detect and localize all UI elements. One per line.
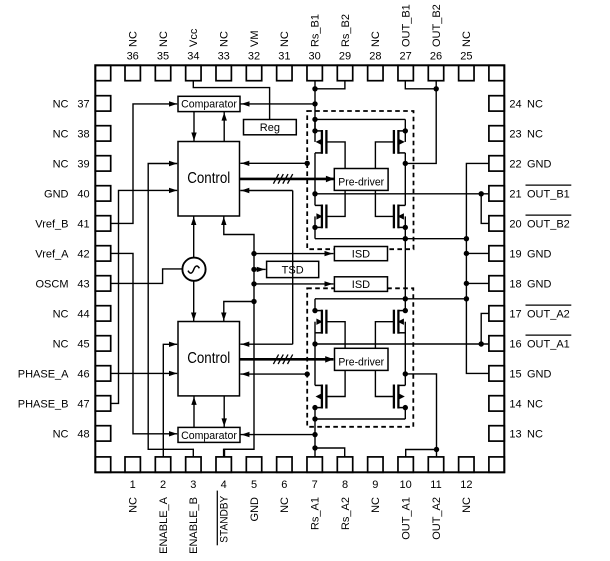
svg-text:28: 28 xyxy=(369,51,381,63)
svg-text:Pre-driver: Pre-driver xyxy=(338,176,384,188)
svg-text:8: 8 xyxy=(342,479,348,491)
svg-text:1: 1 xyxy=(130,479,136,491)
svg-text:NC: NC xyxy=(527,98,543,110)
svg-text:VM: VM xyxy=(249,31,261,48)
svg-text:NC: NC xyxy=(279,497,291,513)
svg-text:45: 45 xyxy=(77,338,89,350)
svg-text:Rs_B1: Rs_B1 xyxy=(309,14,321,47)
svg-text:14: 14 xyxy=(509,398,521,410)
svg-text:Rs_A1: Rs_A1 xyxy=(309,497,321,530)
svg-text:OUT_A1: OUT_A1 xyxy=(400,497,412,540)
svg-text:31: 31 xyxy=(278,51,290,63)
svg-text:39: 39 xyxy=(77,158,89,170)
svg-text:GND: GND xyxy=(527,248,552,260)
svg-text:22: 22 xyxy=(509,158,521,170)
svg-text:NC: NC xyxy=(53,158,69,170)
svg-text:Reg: Reg xyxy=(260,122,280,134)
svg-text:GND: GND xyxy=(527,368,552,380)
svg-text:PHASE_A: PHASE_A xyxy=(18,368,69,380)
svg-text:NC: NC xyxy=(53,308,69,320)
svg-text:NC: NC xyxy=(53,338,69,350)
svg-text:24: 24 xyxy=(509,98,521,110)
svg-text:NC: NC xyxy=(53,128,69,140)
svg-text:ISD: ISD xyxy=(352,249,370,261)
svg-text:NC: NC xyxy=(279,31,291,47)
svg-text:OUT_A1: OUT_A1 xyxy=(527,338,570,350)
svg-text:GND: GND xyxy=(44,188,69,200)
svg-text:11: 11 xyxy=(430,479,441,491)
svg-text:GND: GND xyxy=(527,278,552,290)
svg-text:NC: NC xyxy=(461,497,473,513)
svg-text:36: 36 xyxy=(127,51,139,63)
svg-text:18: 18 xyxy=(509,278,521,290)
svg-text:Control: Control xyxy=(187,350,230,367)
svg-text:ENABLE_B: ENABLE_B xyxy=(188,497,200,554)
svg-text:OUT_A2: OUT_A2 xyxy=(527,308,570,320)
svg-text:19: 19 xyxy=(509,248,521,260)
svg-text:NC: NC xyxy=(527,398,543,410)
svg-text:Comparator: Comparator xyxy=(181,99,237,111)
svg-text:Vcc: Vcc xyxy=(188,28,200,47)
svg-text:44: 44 xyxy=(77,308,89,320)
svg-text:20: 20 xyxy=(509,218,521,230)
svg-text:NC: NC xyxy=(218,31,230,47)
svg-text:OUT_A2: OUT_A2 xyxy=(431,497,443,540)
svg-text:ISD: ISD xyxy=(352,279,370,291)
svg-text:4: 4 xyxy=(221,479,227,491)
svg-text:23: 23 xyxy=(509,128,521,140)
svg-text:NC: NC xyxy=(53,428,69,440)
svg-text:OUT_B1: OUT_B1 xyxy=(400,4,412,47)
svg-text:NC: NC xyxy=(527,128,543,140)
svg-text:26: 26 xyxy=(430,51,442,63)
svg-text:29: 29 xyxy=(339,51,351,63)
svg-text:NC: NC xyxy=(53,98,69,110)
svg-text:ENABLE_A: ENABLE_A xyxy=(158,496,170,554)
svg-text:42: 42 xyxy=(77,248,89,260)
svg-text:40: 40 xyxy=(77,188,89,200)
svg-text:21: 21 xyxy=(509,188,521,200)
svg-text:12: 12 xyxy=(460,479,472,491)
svg-text:33: 33 xyxy=(218,51,230,63)
svg-text:NC: NC xyxy=(370,497,382,513)
svg-text:10: 10 xyxy=(400,479,412,491)
svg-text:OUT_B2: OUT_B2 xyxy=(527,218,570,230)
svg-text:NC: NC xyxy=(527,428,543,440)
svg-text:37: 37 xyxy=(77,98,89,110)
svg-text:Comparator: Comparator xyxy=(181,430,237,442)
svg-text:32: 32 xyxy=(248,51,260,63)
svg-text:6: 6 xyxy=(281,479,287,491)
svg-text:OUT_B1: OUT_B1 xyxy=(527,188,570,200)
svg-text:15: 15 xyxy=(509,368,521,380)
svg-text:9: 9 xyxy=(372,479,378,491)
svg-text:48: 48 xyxy=(77,428,89,440)
svg-text:35: 35 xyxy=(157,51,169,63)
svg-text:46: 46 xyxy=(77,368,89,380)
svg-text:Rs_A2: Rs_A2 xyxy=(340,497,352,530)
svg-text:17: 17 xyxy=(509,308,521,320)
svg-text:GND: GND xyxy=(527,158,552,170)
svg-text:Rs_B2: Rs_B2 xyxy=(340,14,352,47)
svg-text:16: 16 xyxy=(509,338,521,350)
svg-text:NC: NC xyxy=(370,31,382,47)
svg-text:NC: NC xyxy=(128,31,140,47)
svg-text:5: 5 xyxy=(251,479,257,491)
svg-text:NC: NC xyxy=(128,497,140,513)
svg-text:Pre-driver: Pre-driver xyxy=(338,357,384,369)
svg-text:STANDBY: STANDBY xyxy=(218,495,230,543)
svg-text:13: 13 xyxy=(509,428,521,440)
svg-text:43: 43 xyxy=(77,278,89,290)
svg-text:OUT_B2: OUT_B2 xyxy=(431,4,443,47)
svg-text:27: 27 xyxy=(400,51,412,63)
svg-text:34: 34 xyxy=(187,51,199,63)
svg-text:GND: GND xyxy=(249,497,261,522)
svg-text:7: 7 xyxy=(312,479,318,491)
svg-text:OSCM: OSCM xyxy=(36,278,69,290)
svg-text:NC: NC xyxy=(461,31,473,47)
svg-text:38: 38 xyxy=(77,128,89,140)
svg-text:3: 3 xyxy=(190,479,196,491)
svg-text:41: 41 xyxy=(77,218,89,230)
svg-text:NC: NC xyxy=(158,31,170,47)
svg-text:2: 2 xyxy=(160,479,166,491)
svg-text:25: 25 xyxy=(460,51,472,63)
svg-text:Vref_A: Vref_A xyxy=(35,248,69,260)
svg-text:Control: Control xyxy=(187,170,230,187)
svg-text:47: 47 xyxy=(77,398,89,410)
svg-text:Vref_B: Vref_B xyxy=(35,218,68,230)
svg-text:30: 30 xyxy=(309,51,321,63)
svg-text:PHASE_B: PHASE_B xyxy=(18,398,69,410)
